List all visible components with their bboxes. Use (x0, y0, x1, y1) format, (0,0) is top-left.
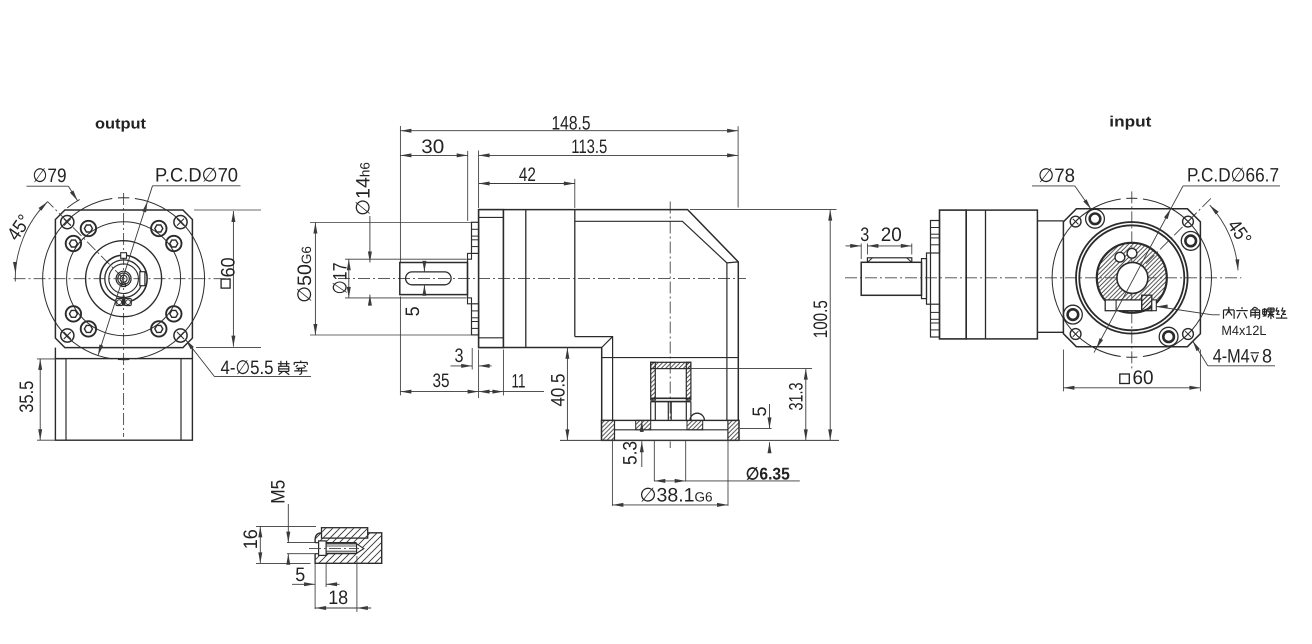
svg-text:16: 16 (240, 529, 262, 549)
svg-text:42: 42 (519, 164, 536, 186)
svg-text:60: 60 (218, 257, 240, 277)
svg-text:35.5: 35.5 (16, 381, 38, 413)
svg-text:3: 3 (860, 224, 869, 246)
svg-text:input: input (1109, 114, 1151, 131)
svg-text:35: 35 (433, 370, 450, 392)
svg-text:∅78: ∅78 (1038, 165, 1075, 187)
svg-text:M5: M5 (268, 480, 290, 504)
svg-text:100.5: 100.5 (810, 300, 832, 338)
svg-text:3: 3 (455, 345, 464, 367)
svg-text:5: 5 (295, 564, 305, 586)
svg-text:P.C.D∅70: P.C.D∅70 (155, 165, 238, 187)
svg-text:60: 60 (1133, 367, 1154, 389)
svg-text:113.5: 113.5 (571, 136, 607, 158)
svg-text:8: 8 (1262, 345, 1272, 367)
svg-text:18: 18 (328, 587, 348, 609)
svg-text:30: 30 (421, 136, 444, 158)
svg-text:∅17: ∅17 (329, 262, 351, 294)
svg-text:148.5: 148.5 (552, 112, 591, 134)
svg-text:5: 5 (402, 306, 424, 316)
svg-text:∅6.35: ∅6.35 (746, 464, 790, 483)
svg-text:P.C.D∅66.7: P.C.D∅66.7 (1187, 165, 1279, 187)
svg-text:31.3: 31.3 (785, 383, 807, 411)
svg-text:output: output (95, 116, 146, 133)
svg-text:40.5: 40.5 (548, 373, 570, 406)
svg-text:5: 5 (749, 406, 771, 416)
svg-text:∅79: ∅79 (33, 165, 67, 187)
svg-text:4-∅5.5: 4-∅5.5 (221, 357, 274, 379)
svg-text:4-M4: 4-M4 (1213, 345, 1250, 367)
svg-text:M4x12L: M4x12L (1221, 323, 1266, 338)
svg-text:11: 11 (512, 370, 526, 392)
svg-text:5.3: 5.3 (620, 441, 642, 465)
svg-text:20: 20 (881, 224, 902, 246)
